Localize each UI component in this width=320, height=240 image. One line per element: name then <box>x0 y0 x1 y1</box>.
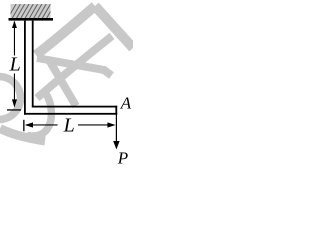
dimension L horizontal line right segment <box>78 124 108 125</box>
dimension down arrowhead <box>12 99 17 107</box>
svg-text:P: P <box>117 149 128 168</box>
dimension left tick vertical <box>23 120 24 131</box>
dimension up arrowhead <box>12 21 17 29</box>
member right end cap <box>115 106 117 115</box>
watermark swoosh arc <box>0 129 45 142</box>
member left vertical line <box>24 21 26 115</box>
watermark caret right leg <box>95 6 133 48</box>
load P line <box>116 115 117 143</box>
fixed support base line <box>9 18 54 21</box>
dimension L vertical line upper segment <box>14 22 15 56</box>
watermark arm stroke <box>37 58 112 76</box>
load P arrowhead <box>113 141 119 150</box>
member bottom horizontal line <box>24 113 117 115</box>
member top horizontal line <box>32 106 117 108</box>
watermark left edge ring <box>0 77 21 120</box>
watermark long diagonal stroke <box>37 36 112 98</box>
svg-text:L: L <box>9 53 21 75</box>
watermark short diagonal stroke <box>49 60 76 106</box>
dimension L horizontal line left segment <box>26 124 58 125</box>
fixed support hatching <box>8 4 55 18</box>
watermark swoosh hook <box>27 93 51 137</box>
dimension L vertical line lower segment <box>14 74 15 100</box>
svg-text:L: L <box>63 114 75 136</box>
svg-text:A: A <box>120 93 132 112</box>
dimension end tick horizontal <box>7 109 21 110</box>
dimension left arrowhead <box>25 122 33 127</box>
dimension right arrowhead <box>107 122 115 127</box>
watermark caret left leg <box>36 6 95 55</box>
member right vertical line <box>32 21 34 107</box>
